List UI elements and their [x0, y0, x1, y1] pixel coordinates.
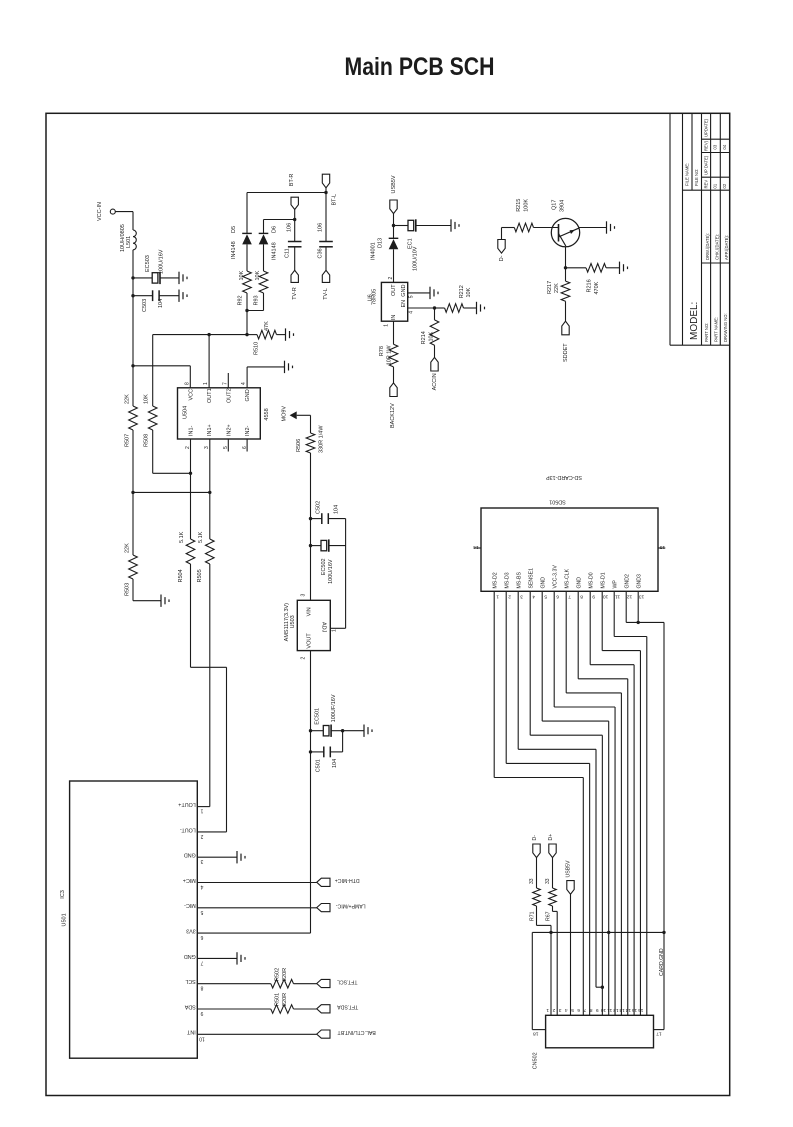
svg-text:MIC-: MIC- [184, 902, 196, 908]
svg-text:R71: R71 [530, 911, 536, 921]
svg-text:VOUT: VOUT [306, 633, 312, 649]
svg-text:IN1-: IN1- [188, 425, 194, 436]
svg-text:104: 104 [332, 759, 338, 768]
svg-text:IN4148: IN4148 [231, 241, 237, 259]
svg-text:100K: 100K [523, 199, 529, 212]
svg-text:7: 7 [222, 382, 228, 385]
svg-text:GND2: GND2 [624, 574, 630, 589]
svg-text:IN1+: IN1+ [207, 424, 213, 436]
svg-text:11: 11 [607, 1007, 612, 1013]
svg-text:5: 5 [408, 295, 414, 298]
svg-text:8: 8 [184, 382, 190, 385]
svg-text:SDDET: SDDET [563, 343, 569, 362]
svg-text:GND3: GND3 [636, 574, 642, 589]
svg-text:Main PCB SCH: Main PCB SCH [345, 53, 495, 81]
svg-text:1: 1 [203, 382, 209, 385]
svg-text:3: 3 [300, 594, 306, 597]
svg-text:FILE NAME:: FILE NAME: [685, 163, 690, 186]
svg-text:4558: 4558 [264, 408, 270, 420]
svg-text:10K: 10K [239, 270, 245, 280]
svg-text:3: 3 [520, 593, 523, 599]
svg-text:10R 1W: 10R 1W [386, 345, 392, 366]
svg-text:GND: GND [401, 284, 407, 296]
svg-text:OUT: OUT [391, 284, 397, 296]
svg-text:22K: 22K [125, 394, 131, 404]
svg-text:GND: GND [245, 389, 251, 401]
svg-text:2: 2 [508, 593, 511, 599]
svg-text:D-: D- [532, 835, 538, 841]
svg-text:10K: 10K [255, 270, 261, 280]
svg-text:R506: R506 [296, 439, 302, 452]
svg-text:R503: R503 [125, 583, 131, 596]
svg-text:5.1K: 5.1K [198, 531, 204, 543]
svg-text:9: 9 [200, 1010, 203, 1016]
svg-text:2: 2 [185, 446, 191, 449]
svg-text:SD-CARD-13P: SD-CARD-13P [546, 474, 582, 480]
svg-text:4: 4 [565, 1007, 568, 1013]
svg-text:12: 12 [613, 1007, 619, 1013]
svg-text:EN: EN [401, 300, 407, 308]
svg-text:2: 2 [388, 277, 394, 280]
svg-text:U501: U501 [61, 913, 67, 926]
svg-text:6: 6 [556, 593, 559, 599]
svg-text:UP DATE): UP DATE) [703, 155, 708, 175]
svg-text:LOUT+: LOUT+ [178, 801, 196, 807]
svg-text:5: 5 [571, 1007, 574, 1013]
svg-text:3V3: 3V3 [186, 928, 196, 934]
svg-text:VCC: VCC [188, 389, 194, 401]
svg-text:100U/16V: 100U/16V [159, 249, 165, 274]
svg-text:4: 4 [408, 311, 414, 314]
svg-text:11: 11 [615, 593, 620, 599]
svg-text:SD501: SD501 [549, 498, 565, 504]
svg-text:GND: GND [184, 953, 196, 959]
svg-text:DTH-MIC+: DTH-MIC+ [335, 877, 360, 883]
svg-text:TFT.SDA: TFT.SDA [337, 1004, 359, 1010]
svg-text:USB5V: USB5V [565, 860, 571, 878]
svg-text:IN2+: IN2+ [226, 424, 232, 436]
svg-text:REV: REV [703, 180, 708, 189]
svg-text:10: 10 [199, 1035, 205, 1041]
svg-text:U504: U504 [182, 406, 188, 419]
svg-text:R510: R510 [253, 342, 259, 355]
svg-text:106: 106 [286, 223, 292, 232]
svg-text:APP./(DATE):: APP./(DATE): [724, 235, 729, 260]
svg-text:1: 1 [496, 593, 499, 599]
svg-text:LAMP+/MIC-: LAMP+/MIC- [336, 903, 366, 909]
svg-text:10K: 10K [428, 331, 434, 341]
svg-text:BACK12V: BACK12V [390, 403, 396, 428]
svg-text:MS-D2: MS-D2 [492, 572, 498, 588]
svg-text:IN4001: IN4001 [370, 242, 376, 260]
svg-text:C503: C503 [142, 299, 148, 312]
svg-text:33: 33 [545, 878, 551, 884]
svg-text:22K: 22K [125, 543, 131, 553]
svg-text:R93: R93 [254, 295, 260, 305]
svg-text:1: 1 [200, 808, 203, 814]
svg-text:3: 3 [558, 1007, 561, 1013]
svg-text:TFT.SCL: TFT.SCL [337, 978, 358, 984]
svg-text:16: 16 [638, 1007, 644, 1013]
svg-text:9: 9 [596, 1007, 599, 1013]
svg-text:04: 04 [722, 144, 727, 149]
svg-text:IN2-: IN2- [245, 425, 251, 436]
svg-text:15: 15 [632, 1007, 638, 1013]
svg-text:MS-CLK: MS-CLK [564, 568, 570, 588]
svg-text:100U/10V: 100U/10V [413, 246, 419, 271]
svg-text:C11: C11 [284, 248, 290, 258]
svg-text:6: 6 [242, 446, 248, 449]
svg-text:470K: 470K [594, 281, 600, 294]
svg-text:220R: 220R [282, 993, 288, 1006]
svg-text:2: 2 [300, 657, 306, 660]
svg-text:17: 17 [656, 1030, 662, 1036]
svg-text:VCC-3.3V: VCC-3.3V [552, 565, 558, 589]
svg-text:SCL: SCL [185, 978, 196, 984]
svg-text:C502: C502 [315, 501, 321, 514]
svg-text:D-: D- [499, 255, 505, 261]
svg-text:3: 3 [200, 858, 203, 864]
svg-text:MIC+: MIC+ [183, 877, 196, 883]
svg-text:R508: R508 [144, 434, 150, 447]
svg-text:OUT2: OUT2 [226, 388, 232, 403]
svg-text:MO9V: MO9V [281, 406, 287, 422]
svg-text:12: 12 [627, 593, 633, 599]
svg-text:220R: 220R [282, 968, 288, 981]
svg-text:MS-D1: MS-D1 [600, 572, 606, 588]
svg-text:SENSE1: SENSE1 [528, 568, 534, 589]
svg-text:5: 5 [200, 909, 203, 915]
svg-text:C36: C36 [318, 248, 324, 258]
svg-text:5.1K: 5.1K [179, 531, 185, 543]
svg-text:6: 6 [200, 934, 203, 940]
svg-text:7: 7 [583, 1007, 586, 1013]
svg-text:PART NAME:: PART NAME: [713, 317, 718, 342]
svg-text:VIN: VIN [306, 607, 312, 616]
svg-text:100UF/16V: 100UF/16V [331, 694, 337, 722]
svg-text:7: 7 [568, 593, 571, 599]
svg-text:EC501: EC501 [315, 708, 321, 725]
svg-text:D+: D+ [548, 834, 554, 841]
svg-text:10K: 10K [144, 394, 150, 404]
svg-text:18: 18 [533, 1030, 539, 1036]
svg-text:LOUT-: LOUT- [180, 826, 196, 832]
svg-text:MS-D3: MS-D3 [504, 572, 510, 588]
svg-text:15: 15 [659, 544, 665, 550]
svg-text:3904: 3904 [559, 200, 565, 212]
svg-text:ACCIN: ACCIN [432, 373, 438, 390]
svg-text:U503: U503 [290, 615, 296, 628]
svg-text:VCC-IN: VCC-IN [97, 202, 103, 221]
svg-text:MS-D0: MS-D0 [588, 572, 594, 588]
svg-text:R214: R214 [421, 331, 427, 344]
svg-text:10K: 10K [466, 287, 472, 297]
svg-text:MS-BS: MS-BS [516, 572, 522, 589]
svg-text:14: 14 [625, 1007, 631, 1013]
svg-text:GND: GND [184, 852, 196, 858]
svg-text:1: 1 [546, 1007, 549, 1013]
svg-text:L501: L501 [126, 236, 132, 248]
svg-text:EC503: EC503 [145, 255, 151, 272]
svg-text:AMS1117(3.3V): AMS1117(3.3V) [284, 603, 290, 641]
svg-text:5: 5 [544, 593, 547, 599]
svg-text:3: 3 [204, 446, 210, 449]
svg-text:DRW./(DATE):: DRW./(DATE): [705, 233, 710, 260]
svg-text:78R05: 78R05 [371, 289, 377, 305]
svg-text:R507: R507 [125, 434, 131, 447]
svg-text:R92: R92 [238, 295, 244, 305]
svg-text:R216: R216 [587, 279, 593, 292]
svg-text:14: 14 [473, 544, 479, 550]
svg-text:DRAWING NO:: DRAWING NO: [723, 313, 728, 342]
svg-text:2: 2 [552, 1007, 555, 1013]
svg-text:03: 03 [712, 144, 717, 149]
svg-text:REV): REV) [703, 140, 708, 151]
svg-text:FILE NO:: FILE NO: [694, 169, 699, 186]
svg-text:R505: R505 [197, 569, 203, 582]
svg-text:C501: C501 [315, 759, 321, 772]
svg-text:BAL.CTL/INT.BT: BAL.CTL/INT.BT [337, 1029, 376, 1035]
svg-text:Q17: Q17 [552, 200, 558, 210]
svg-text:GND: GND [576, 577, 582, 589]
svg-text:CHK./(DATE):: CHK./(DATE): [714, 234, 719, 260]
svg-text:10: 10 [601, 1007, 607, 1013]
svg-text:1: 1 [332, 629, 338, 632]
svg-text:SDA: SDA [184, 1003, 195, 1009]
svg-text:8: 8 [200, 985, 203, 991]
svg-text:R215: R215 [516, 199, 522, 212]
svg-text:4: 4 [532, 593, 535, 599]
svg-text:CN502: CN502 [533, 1052, 539, 1069]
svg-text:8: 8 [580, 593, 583, 599]
svg-text:47K: 47K [264, 321, 270, 331]
svg-text:WP: WP [612, 580, 618, 589]
svg-text:MODEL:: MODEL: [689, 302, 700, 340]
svg-text:100U/16V: 100U/16V [328, 559, 334, 584]
svg-text:5: 5 [223, 446, 229, 449]
svg-text:BT-L: BT-L [332, 194, 338, 206]
svg-text:104: 104 [333, 505, 339, 514]
svg-text:13: 13 [619, 1007, 625, 1013]
svg-text:EC502: EC502 [321, 558, 327, 575]
svg-text:22K: 22K [554, 283, 560, 293]
svg-text:OUT1: OUT1 [207, 388, 213, 403]
svg-text:ADJ: ADJ [320, 622, 326, 633]
svg-text:R504: R504 [178, 569, 184, 582]
svg-text:R502: R502 [275, 968, 281, 981]
svg-text:PART NO:: PART NO: [704, 323, 709, 342]
svg-text:TV-L: TV-L [323, 288, 329, 300]
svg-text:GND: GND [540, 577, 546, 589]
svg-text:104: 104 [158, 299, 164, 308]
svg-text:2: 2 [200, 833, 203, 839]
svg-text:INT: INT [186, 1029, 195, 1035]
svg-text:R501: R501 [275, 993, 281, 1006]
svg-text:BT-R: BT-R [289, 174, 295, 187]
svg-text:13: 13 [639, 593, 645, 599]
svg-text:330R 1/4W: 330R 1/4W [318, 425, 324, 453]
svg-text:33: 33 [529, 878, 535, 884]
svg-text:R212: R212 [459, 285, 465, 298]
svg-text:D5: D5 [231, 226, 237, 233]
svg-text:IC3: IC3 [60, 890, 66, 899]
svg-text:10: 10 [603, 593, 609, 599]
svg-text:9: 9 [592, 593, 595, 599]
svg-text:01: 01 [712, 183, 717, 188]
svg-text:R78: R78 [379, 346, 385, 356]
svg-text:R67: R67 [546, 911, 552, 921]
svg-text:D6: D6 [272, 226, 278, 233]
svg-text:CARD.GND: CARD.GND [659, 948, 665, 976]
svg-text:D13: D13 [377, 238, 383, 248]
svg-text:6: 6 [577, 1007, 580, 1013]
svg-text:USB5V: USB5V [391, 175, 397, 193]
svg-text:8: 8 [589, 1007, 592, 1013]
svg-text:4: 4 [241, 382, 247, 385]
svg-text:4: 4 [200, 884, 203, 890]
svg-text:1: 1 [383, 324, 389, 327]
svg-text:TV-R: TV-R [292, 287, 298, 300]
svg-text:UPDATE): UPDATE) [703, 118, 708, 137]
svg-text:7: 7 [200, 959, 203, 965]
svg-text:106: 106 [318, 223, 324, 232]
svg-text:IN4148: IN4148 [272, 242, 278, 260]
svg-text:R217: R217 [547, 281, 553, 294]
svg-text:02: 02 [722, 183, 727, 188]
svg-text:IN: IN [391, 315, 397, 321]
